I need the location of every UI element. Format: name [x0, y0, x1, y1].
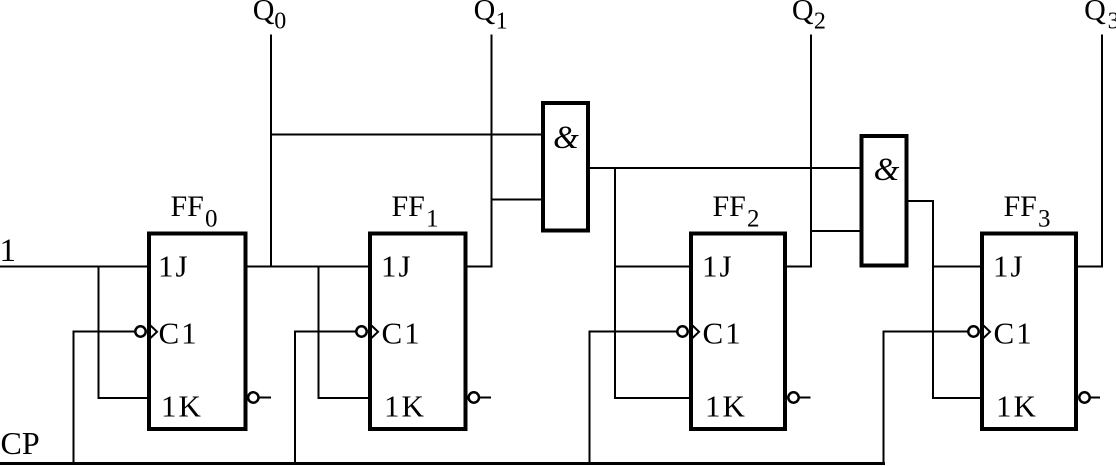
svg-text:&: & [874, 152, 900, 188]
svg-text:FF: FF [713, 190, 746, 223]
svg-text:2: 2 [814, 9, 826, 35]
node Q3 label [1084, 0, 1116, 35]
node Q0 label [253, 0, 286, 35]
wire FF0 1K output stub [258, 397, 271, 399]
svg-text:C1: C1 [159, 316, 199, 351]
svg-text:2: 2 [747, 206, 760, 233]
wire FF3 1K output stub [1089, 397, 1100, 399]
svg-text:FF: FF [171, 190, 204, 223]
flip-flop FF1 box [370, 234, 466, 430]
svg-text:C1: C1 [703, 316, 743, 351]
wire FF2 1K lead [614, 397, 691, 399]
flip-flop FF2 C1 dynamic-input triangle [693, 326, 700, 339]
svg-text:C1: C1 [994, 316, 1034, 351]
svg-text:1J: 1J [158, 249, 190, 284]
wire FF3 C1 lead [884, 331, 970, 333]
wire U1 output to U2 input [588, 167, 862, 169]
flip-flop FF3 pin labels 1J C1 1K [993, 249, 1038, 424]
wire FF1 clock riser [294, 331, 296, 465]
svg-text:1: 1 [496, 9, 508, 35]
wire FF0 1K tie-down [99, 266, 149, 399]
wire FF2 C1 lead [590, 331, 679, 333]
svg-text:3: 3 [1108, 9, 1116, 35]
wire FF1 1K output stub [479, 397, 492, 399]
svg-text:Q: Q [253, 0, 275, 27]
svg-text:&: & [553, 120, 579, 156]
and-gate U2 box [862, 136, 907, 266]
wire FF2 1K output stub [798, 397, 810, 399]
flip-flop FF2 1K output bubble [788, 392, 798, 402]
label FF1 [392, 190, 439, 233]
wire 1 to FF0 1J [0, 266, 148, 268]
svg-text:C1: C1 [382, 316, 422, 351]
flip-flop FF1 C1 dynamic-input triangle [372, 326, 379, 339]
svg-text:1J: 1J [993, 249, 1025, 284]
label FF0 [171, 190, 218, 233]
flip-flop FF1 C1 inversion bubble [356, 326, 366, 336]
flip-flop FF2 C1 inversion bubble [677, 326, 687, 336]
svg-text:1K: 1K [384, 389, 426, 424]
flip-flop FF3 box [982, 234, 1076, 430]
svg-text:1: 1 [0, 233, 16, 269]
flip-flop FF3 C1 dynamic-input triangle [984, 326, 991, 339]
flip-flop FF0 pin labels 1J C1 1K [158, 249, 203, 424]
flip-flop FF0 C1 dynamic-input triangle [151, 326, 158, 339]
wire FF1 Q out [466, 266, 493, 268]
svg-text:1K: 1K [161, 389, 203, 424]
node Q2 label [792, 0, 826, 35]
wire U1 output riser down [614, 167, 616, 399]
svg-text:0: 0 [274, 9, 286, 35]
wire FF1 1K tie-down [319, 266, 371, 399]
svg-text:FF: FF [1004, 190, 1037, 223]
label FF2 [713, 190, 760, 233]
flip-flop FF1 1K output bubble [469, 392, 479, 402]
wire U2 output riser down [932, 200, 934, 399]
flip-flop FF3 1K output bubble [1079, 392, 1089, 402]
wire FF2 Q out [785, 266, 812, 268]
svg-text:1J: 1J [381, 249, 413, 284]
wire FF3 Q out [1076, 266, 1103, 268]
svg-text:1: 1 [426, 206, 439, 233]
flip-flop FF0 box [149, 234, 246, 430]
flip-flop FF3 C1 inversion bubble [968, 326, 978, 336]
wire Q0 to U1 input [270, 134, 543, 136]
flip-flop FF2 pin labels 1J C1 1K [702, 249, 747, 424]
flip-flop FF0 C1 inversion bubble [135, 326, 145, 336]
wire Q2 riser [810, 35, 812, 268]
wire FF0 clock riser [73, 331, 75, 465]
svg-text:Q: Q [792, 0, 814, 27]
svg-text:Q: Q [1084, 0, 1106, 27]
wire FF3 1K lead [932, 397, 982, 399]
wire U2 output [907, 200, 935, 202]
svg-text:Q: Q [474, 0, 496, 27]
and-gate U1 box [543, 103, 588, 231]
flip-flop FF1 pin labels 1J C1 1K [381, 249, 426, 424]
wire FF3 clock riser [883, 331, 885, 465]
svg-text:1K: 1K [996, 389, 1038, 424]
wire Q3 riser [1101, 35, 1103, 268]
svg-text:1J: 1J [702, 249, 734, 284]
wire FF0 Q to FF1 1J [246, 266, 370, 268]
wire Q1 to U1 input [491, 199, 544, 201]
label FF3 [1004, 190, 1051, 233]
svg-text:1K: 1K [705, 389, 747, 424]
node Q1 label [474, 0, 508, 35]
wire FF2 clock riser [589, 331, 591, 465]
flip-flop FF0 1K output bubble [248, 392, 258, 402]
wire Q0 riser [270, 35, 272, 268]
svg-text:0: 0 [205, 206, 218, 233]
wire FF1 C1 lead [295, 331, 357, 333]
wire Q1 riser [491, 35, 493, 268]
wire FF3 1J lead [932, 266, 982, 268]
wire FF0 C1 lead [74, 331, 137, 333]
svg-text:CP: CP [1, 425, 40, 461]
svg-text:FF: FF [392, 190, 425, 223]
wire FF2 1J lead [614, 266, 691, 268]
svg-text:3: 3 [1038, 206, 1051, 233]
flip-flop FF2 box [691, 234, 785, 430]
wire CP bus [0, 462, 885, 465]
wire Q2 to U2 input [810, 230, 862, 232]
